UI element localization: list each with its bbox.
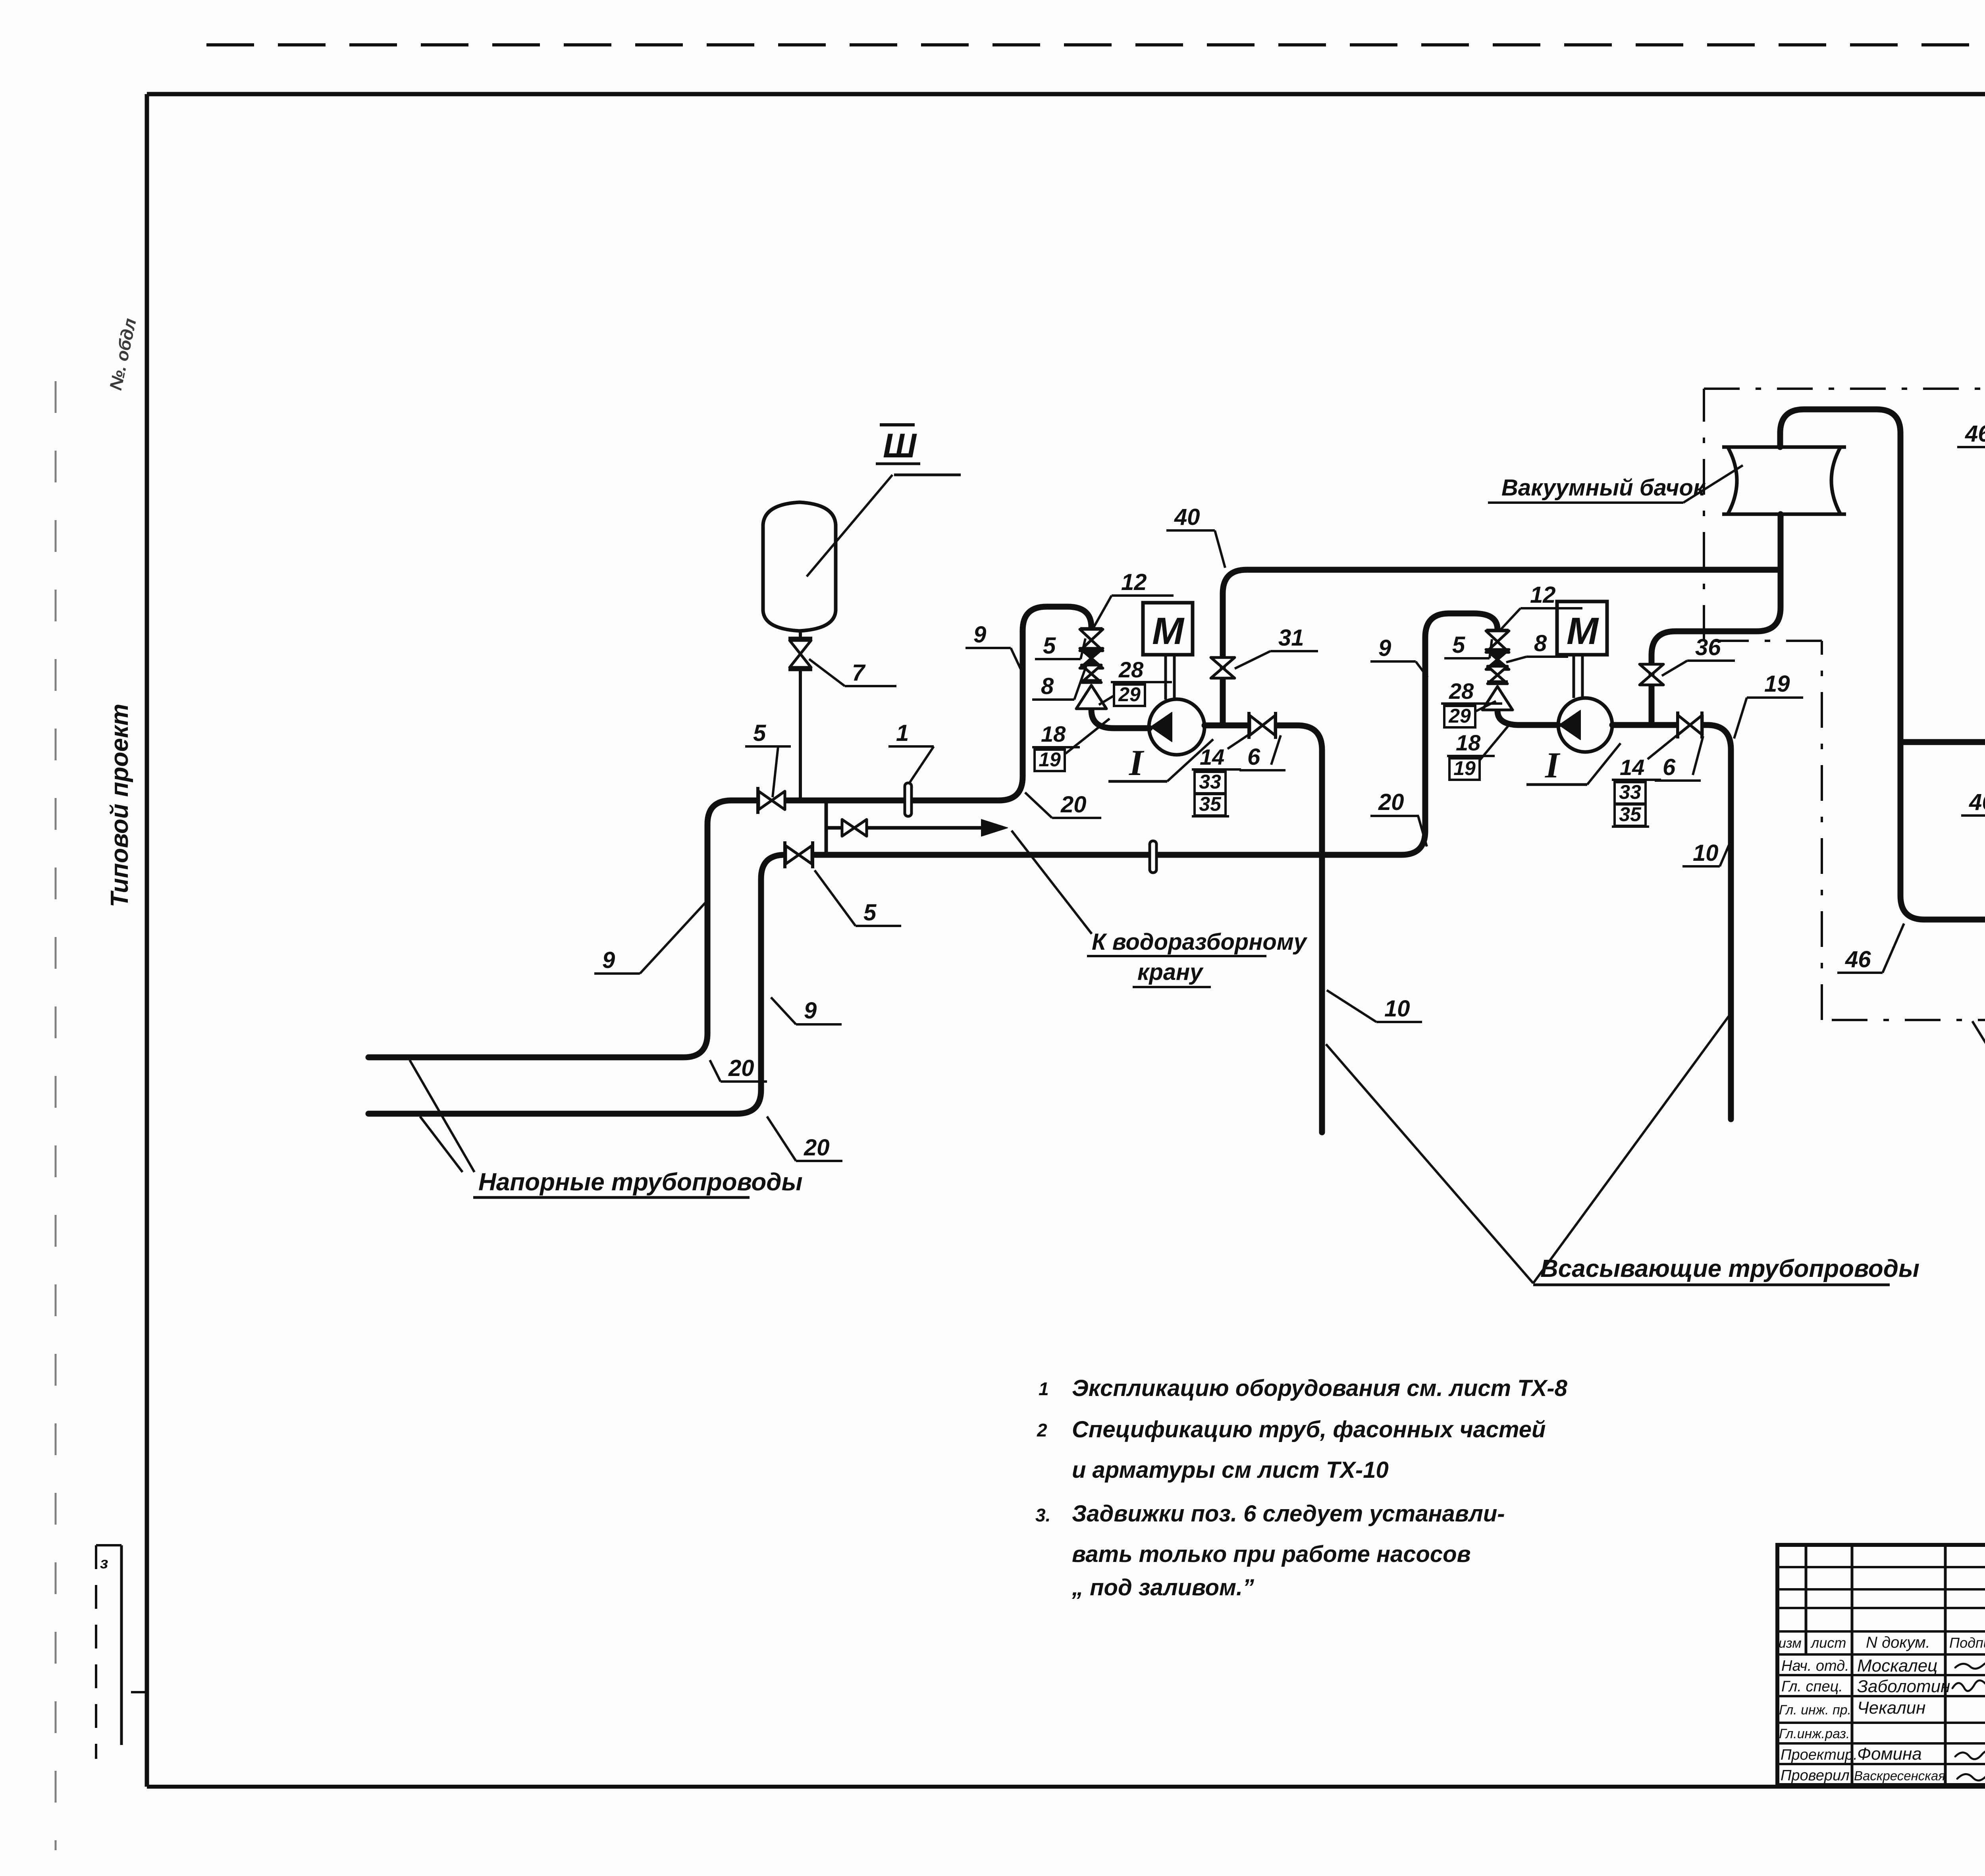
svg-text:6: 6 (1247, 744, 1260, 770)
svg-text:5: 5 (753, 720, 766, 746)
svg-text:9: 9 (602, 947, 615, 973)
svg-text:изм: изм (1779, 1636, 1802, 1651)
svg-text:Проверил: Проверил (1781, 1767, 1850, 1784)
svg-text:20: 20 (1060, 792, 1087, 817)
svg-text:К водоразборному: К водоразборному (1092, 929, 1308, 955)
svg-text:5: 5 (1452, 632, 1465, 658)
svg-text:19: 19 (1764, 671, 1790, 697)
svg-text:Васкресенская: Васкресенская (1854, 1768, 1945, 1783)
svg-text:18: 18 (1041, 721, 1066, 746)
svg-text:Задвижки поз. 6 следует ус: Задвижки поз. 6 следует устанавли- (1072, 1501, 1505, 1527)
svg-text:20: 20 (1378, 789, 1404, 815)
svg-text:Заболотин: Заболотин (1857, 1677, 1950, 1696)
svg-text:и арматуры см лист ТХ-10: и арматуры см лист ТХ-10 (1072, 1457, 1389, 1483)
svg-text:Фомина: Фомина (1857, 1744, 1922, 1764)
svg-text:„ под заливом.”: „ под заливом.” (1072, 1575, 1254, 1600)
svg-text:I: I (1545, 745, 1561, 785)
svg-text:36: 36 (1695, 634, 1721, 660)
svg-text:35: 35 (1199, 793, 1222, 815)
svg-text:9: 9 (1378, 635, 1391, 661)
svg-text:40: 40 (1174, 504, 1200, 530)
svg-text:28: 28 (1118, 657, 1144, 682)
svg-text:19: 19 (1453, 757, 1476, 779)
svg-text:2: 2 (1037, 1420, 1047, 1440)
svg-text:9: 9 (804, 998, 817, 1024)
svg-text:Типовой проект: Типовой проект (106, 704, 133, 907)
svg-text:19: 19 (1039, 748, 1061, 771)
svg-text:7: 7 (852, 660, 866, 686)
svg-text:Напорные трубопроводы: Напорные трубопроводы (478, 1168, 803, 1196)
svg-text:1: 1 (896, 720, 909, 746)
svg-text:Экспликацию оборудования см.: Экспликацию оборудования см. лист ТХ-8 (1072, 1375, 1568, 1401)
svg-text:35: 35 (1619, 803, 1642, 825)
svg-text:Москалец: Москалец (1857, 1656, 1937, 1675)
svg-text:8: 8 (1534, 630, 1547, 656)
svg-text:Гл. инж. пр.: Гл. инж. пр. (1779, 1702, 1851, 1718)
svg-text:20: 20 (804, 1135, 830, 1161)
svg-text:14: 14 (1200, 744, 1224, 769)
svg-text:Чекалин: Чекалин (1857, 1698, 1925, 1718)
svg-text:33: 33 (1199, 771, 1221, 793)
svg-text:8: 8 (1041, 673, 1054, 699)
svg-text:3.: 3. (1035, 1505, 1050, 1525)
svg-text:10: 10 (1693, 840, 1719, 866)
svg-text:29: 29 (1118, 683, 1141, 706)
svg-text:29: 29 (1448, 705, 1471, 727)
svg-text:Вакуумный бачок: Вакуумный бачок (1501, 475, 1706, 501)
svg-text:лист: лист (1810, 1635, 1846, 1651)
svg-text:14: 14 (1620, 755, 1644, 780)
svg-text:Гл.инж.раз.: Гл.инж.раз. (1779, 1726, 1850, 1741)
svg-text:10: 10 (1384, 996, 1410, 1022)
svg-text:крану: крану (1137, 959, 1204, 985)
svg-text:9: 9 (973, 622, 986, 648)
svg-text:28: 28 (1449, 679, 1474, 704)
svg-text:Спецификацию труб, фасонных: Спецификацию труб, фасонных частей (1072, 1417, 1546, 1442)
svg-text:20: 20 (728, 1055, 754, 1081)
svg-text:з: з (100, 1554, 108, 1572)
svg-text:46: 46 (1969, 789, 1985, 815)
svg-text:1: 1 (1039, 1379, 1049, 1399)
svg-text:Ш: Ш (883, 427, 917, 465)
svg-text:5: 5 (1043, 633, 1056, 659)
svg-text:М: М (1567, 610, 1599, 652)
svg-text:18: 18 (1456, 730, 1481, 755)
svg-text:46: 46 (1845, 947, 1871, 972)
svg-text:М: М (1152, 610, 1185, 652)
svg-text:Проектир.: Проектир. (1781, 1747, 1858, 1763)
svg-text:12: 12 (1121, 569, 1147, 595)
svg-text:33: 33 (1619, 781, 1641, 803)
svg-text:Всасывающие трубопроводы: Всасывающие трубопроводы (1540, 1255, 1919, 1282)
svg-text:12: 12 (1530, 582, 1556, 608)
svg-text:Гл. спец.: Гл. спец. (1781, 1678, 1843, 1695)
svg-text:31: 31 (1278, 625, 1304, 651)
svg-text:5: 5 (863, 900, 877, 925)
svg-text:N докум.: N докум. (1866, 1634, 1930, 1651)
svg-text:6: 6 (1663, 754, 1676, 780)
svg-text:Нач. отд.: Нач. отд. (1781, 1658, 1849, 1674)
svg-text:вать только при работе нас: вать только при работе насосов (1072, 1541, 1471, 1567)
svg-text:I: I (1129, 742, 1145, 783)
svg-text:Подпись: Подпись (1949, 1635, 1985, 1651)
svg-text:46: 46 (1965, 421, 1985, 447)
